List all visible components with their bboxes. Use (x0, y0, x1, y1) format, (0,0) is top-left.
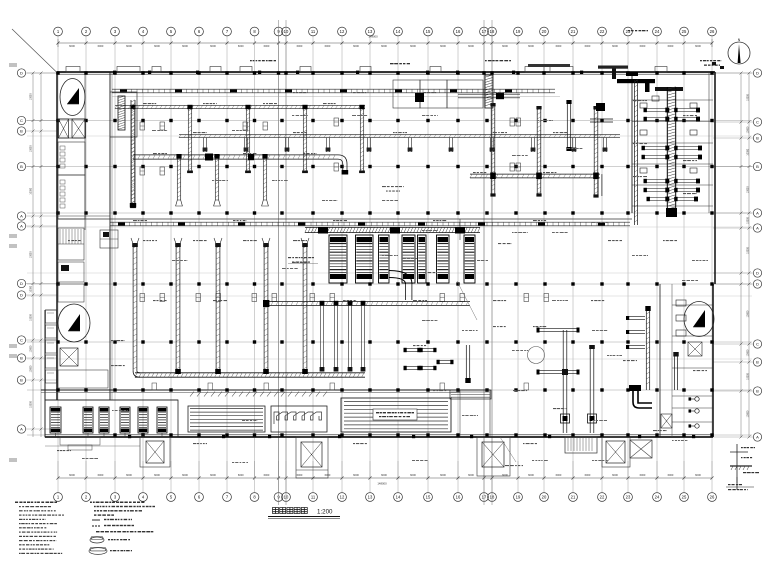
svg-text:6000: 6000 (585, 473, 591, 477)
trunk duct T4 right-center y176 (470, 173, 600, 175)
svg-text:C: C (20, 118, 23, 123)
svg-text:6000: 6000 (210, 473, 216, 477)
legend car symbols (90, 537, 104, 543)
hatch row above bands (190, 392, 194, 397)
elevator protrusion E4 (602, 437, 630, 467)
lower hall vertical riser ducts (132, 243, 134, 371)
svg-text:6000: 6000 (668, 473, 674, 477)
lower hall wall y390 (41, 389, 490, 391)
svg-text:10000: 10000 (30, 314, 33, 321)
svg-text:12: 12 (340, 29, 345, 34)
svg-text:26: 26 (710, 495, 715, 500)
bottom AHU units (50, 407, 61, 433)
top grid bubbles (54, 27, 63, 36)
svg-text:6000: 6000 (238, 473, 244, 477)
center-bottom cluster of branches (405, 348, 419, 350)
left vertical dimension lines (32, 73, 34, 437)
bottom AHU room walls (45, 400, 178, 437)
svg-text:10000: 10000 (747, 148, 750, 155)
svg-text:B: B (756, 389, 759, 394)
right lower riser (673, 355, 675, 390)
legend notes block middle (90, 502, 92, 504)
building outer wall right (714, 72, 716, 284)
AHU cluster top duct band (305, 226, 480, 228)
T4 elbow down at x600 (598, 174, 602, 196)
right lower wing walls (659, 284, 661, 437)
svg-text:10000: 10000 (747, 247, 750, 254)
right wing left riser (633, 80, 635, 225)
svg-text:B: B (20, 378, 23, 383)
svg-text:25: 25 (682, 29, 687, 34)
svg-text:6000: 6000 (410, 44, 416, 48)
elevator right wing (688, 342, 702, 356)
svg-text:C: C (20, 338, 23, 343)
svg-text:A: A (756, 226, 759, 231)
ceiling diffuser pairs center hall (510, 118, 515, 126)
svg-text:10000: 10000 (30, 401, 33, 408)
svg-text:6000: 6000 (502, 473, 508, 477)
right wing branch pairs (645, 108, 667, 110)
trunk duct T2 y136 (179, 133, 620, 135)
right wing small equipment (640, 103, 647, 108)
svg-text:10: 10 (284, 495, 289, 500)
svg-text:15: 15 (426, 29, 431, 34)
svg-text:13: 13 (368, 29, 373, 34)
svg-text:19: 19 (516, 29, 521, 34)
toilet rooms left column (58, 142, 85, 175)
upper rooms x390-490 (393, 80, 420, 108)
right oval room (684, 302, 714, 337)
diffuser pairs lower hall row 390 area (152, 383, 157, 390)
svg-text:B: B (20, 356, 23, 361)
svg-text:20: 20 (542, 29, 547, 34)
svg-text:16: 16 (456, 29, 461, 34)
svg-text:6000: 6000 (468, 44, 474, 48)
svg-text:10000: 10000 (30, 251, 33, 258)
building outer wall bottom (45, 436, 713, 438)
right vertical dimension lines (740, 73, 742, 437)
svg-text:6000: 6000 (695, 473, 701, 477)
gap vertical duct x569 (566, 103, 568, 150)
T4 verticals (490, 105, 492, 195)
right wing trunk duct (666, 87, 668, 212)
T duct 1 x565 (562, 330, 564, 433)
svg-text:10000: 10000 (30, 187, 33, 194)
hall interior labels with leaders (288, 257, 291, 258)
svg-text:6000: 6000 (69, 44, 75, 48)
section cut line pair 9/10 (278, 20, 280, 505)
top-left oval room (60, 79, 85, 116)
svg-text:6000: 6000 (556, 44, 562, 48)
svg-text:6000: 6000 (154, 44, 160, 48)
svg-text:B: B (20, 129, 23, 134)
svg-text:6000: 6000 (182, 473, 188, 477)
trunk duct T1 y106 (115, 104, 365, 106)
top small labels near north arrow (700, 60, 702, 61)
svg-text:6000: 6000 (182, 44, 188, 48)
svg-text:14: 14 (396, 29, 401, 34)
stair protrusion center-right (565, 437, 597, 453)
svg-text:6000: 6000 (264, 473, 270, 477)
corner cut diagonal line (12, 29, 58, 73)
smoke riser duct (118, 96, 125, 130)
svg-text:16: 16 (456, 495, 461, 500)
svg-text:17: 17 (482, 495, 487, 500)
svg-text:24: 24 (655, 495, 660, 500)
svg-text:10: 10 (284, 29, 289, 34)
striped band B1 (188, 406, 265, 432)
svg-text:6000: 6000 (640, 44, 646, 48)
svg-text:D: D (20, 293, 23, 298)
svg-text:6000: 6000 (154, 473, 160, 477)
trunk duct T3 y157 (133, 154, 338, 156)
elevator bottom-left (60, 348, 78, 366)
small stalls column x45-57 (46, 310, 57, 323)
T duct 2 x592 (589, 348, 591, 433)
svg-text:18: 18 (490, 495, 495, 500)
right grid bubbles (753, 69, 761, 77)
vertical axis grid lines (57, 43, 59, 478)
svg-text:10000: 10000 (30, 93, 33, 100)
svg-text:D: D (756, 71, 759, 76)
legend symbol rows (92, 519, 100, 521)
door ticks on bottom wall (128, 435, 131, 438)
section cut line pair 17/18 (483, 20, 485, 505)
svg-text:6000: 6000 (353, 473, 359, 477)
svg-text:6000: 6000 (353, 44, 359, 48)
svg-text:14: 14 (396, 495, 401, 500)
svg-text:6000: 6000 (585, 44, 591, 48)
svg-text:10000: 10000 (747, 373, 750, 380)
corridor wall y219 (57, 218, 632, 220)
svg-text:23: 23 (626, 29, 631, 34)
elevator protrusion E3 (477, 437, 510, 476)
svg-text:26: 26 (710, 29, 715, 34)
svg-text:B: B (20, 164, 23, 169)
svg-text:C: C (756, 120, 759, 125)
svg-text:6000: 6000 (69, 473, 75, 477)
svg-text:A: A (756, 211, 759, 216)
svg-text:6000: 6000 (695, 44, 701, 48)
svg-text:1:200: 1:200 (317, 509, 333, 516)
branch duct y303 (266, 301, 470, 303)
svg-text:21: 21 (571, 495, 576, 500)
svg-text:10000: 10000 (747, 126, 750, 133)
svg-text:17: 17 (482, 29, 487, 34)
bottom-left oval room (58, 304, 90, 342)
top dimension line (58, 42, 712, 44)
T3 elbow to vertical (338, 155, 347, 173)
diffuser pairs lower hall row 296 (140, 294, 145, 302)
horizontal axis grid lines (27, 72, 752, 74)
right wing top dark ducts (617, 79, 655, 83)
svg-text:6000: 6000 (468, 473, 474, 477)
svg-text:6000: 6000 (410, 473, 416, 477)
svg-text:6000: 6000 (126, 44, 132, 48)
bottom-left step bumps (60, 437, 100, 445)
svg-text:6000: 6000 (126, 473, 132, 477)
svg-text:D: D (756, 282, 759, 287)
scattered duct size labels (143, 103, 147, 104)
svg-text:B: B (756, 360, 759, 365)
svg-text:11: 11 (311, 495, 316, 500)
svg-text:A: A (756, 435, 759, 440)
corridor long duct y224 (110, 221, 630, 223)
hatched box right of E4 (630, 440, 652, 458)
svg-text:6000: 6000 (640, 473, 646, 477)
svg-text:6000: 6000 (297, 473, 303, 477)
right-bottom S duct cluster (633, 390, 652, 408)
T3 vertical drops (176, 159, 178, 201)
svg-text:10000: 10000 (747, 94, 750, 101)
svg-text:D: D (20, 281, 23, 286)
svg-text:6000: 6000 (264, 44, 270, 48)
svg-text:D: D (20, 71, 23, 76)
smoke room upper-left (110, 92, 137, 137)
svg-text:6000: 6000 (612, 473, 618, 477)
shaft boxes left x100-118 y230 (100, 230, 118, 248)
svg-text:10000: 10000 (747, 186, 750, 193)
upper connector duct y96 (458, 93, 520, 95)
svg-text:6000: 6000 (297, 44, 303, 48)
svg-text:A: A (20, 427, 23, 432)
elevators top-left (59, 119, 69, 138)
svg-text:10000: 10000 (747, 349, 750, 356)
lower hall U trunk y375 (135, 372, 365, 374)
svg-text:6000: 6000 (612, 44, 618, 48)
inner corridor wall x110 (109, 72, 111, 400)
svg-text:10000: 10000 (30, 345, 33, 352)
meander band B2 (271, 406, 327, 432)
svg-text:11: 11 (311, 29, 316, 34)
y303 drops (319, 305, 321, 371)
svg-text:6000: 6000 (381, 44, 387, 48)
svg-text:23: 23 (626, 495, 631, 500)
right-bottom branches (628, 316, 645, 318)
svg-text:148000: 148000 (377, 482, 387, 486)
svg-text:24: 24 (655, 29, 660, 34)
svg-text:15: 15 (426, 495, 431, 500)
AHU units row (329, 235, 347, 283)
AHU elbow curve (389, 271, 412, 285)
svg-text:25: 25 (682, 495, 687, 500)
bottom rooms top wall y400 (45, 399, 178, 401)
svg-text:22: 22 (600, 495, 605, 500)
right wing trunk bottom elbow (666, 208, 677, 217)
inner wall x85 upper-left (84, 72, 86, 230)
riser duct x489 upper (485, 75, 493, 108)
svg-text:B: B (756, 136, 759, 141)
svg-text:10000: 10000 (747, 410, 750, 417)
left lower room (58, 370, 108, 388)
svg-text:6000: 6000 (668, 44, 674, 48)
mid lower walls x460-632 (459, 219, 461, 240)
band B3 top dark wall strip (450, 390, 491, 399)
right margin section detail (736, 444, 738, 490)
north arrow (728, 42, 750, 64)
svg-text:6000: 6000 (210, 44, 216, 48)
big striped band B3 (341, 398, 451, 432)
svg-text:10000: 10000 (30, 365, 33, 372)
tall left riser duct x133 (130, 100, 132, 207)
right wing separation wall x632 (631, 72, 633, 213)
long supply duct below top wall (112, 88, 555, 90)
svg-text:20: 20 (542, 495, 547, 500)
building outer wall left (56, 72, 58, 400)
svg-text:6000: 6000 (556, 473, 562, 477)
svg-text:6000: 6000 (502, 44, 508, 48)
svg-text:6000: 6000 (440, 44, 446, 48)
svg-text:A: A (20, 224, 23, 229)
entrance canopies top (66, 67, 80, 73)
svg-text:10000: 10000 (747, 310, 750, 317)
svg-text:13: 13 (368, 495, 373, 500)
title: floor plan 1:200 (273, 508, 279, 514)
svg-text:6000: 6000 (381, 473, 387, 477)
svg-text:19: 19 (516, 495, 521, 500)
svg-text:6000: 6000 (528, 44, 534, 48)
svg-text:6000: 6000 (440, 473, 446, 477)
svg-text:10000: 10000 (30, 285, 33, 292)
svg-text:21: 21 (571, 29, 576, 34)
svg-text:6000: 6000 (238, 44, 244, 48)
building outer wall top (57, 71, 715, 73)
duct below AHU cluster (405, 284, 407, 300)
svg-text:22: 22 (600, 29, 605, 34)
svg-text:B: B (756, 164, 759, 169)
small rooms left y260-300 (58, 262, 84, 282)
bottom grid bubbles (54, 493, 63, 502)
small circle column bubble (528, 347, 545, 364)
svg-text:6000: 6000 (98, 473, 104, 477)
svg-text:12: 12 (340, 495, 345, 500)
door ticks on top wall (113, 71, 116, 74)
svg-text:A: A (20, 214, 23, 219)
svg-text:C: C (756, 342, 759, 347)
svg-text:6000: 6000 (528, 473, 534, 477)
left grid bubbles (17, 69, 25, 77)
stairs left y230 (58, 228, 84, 260)
T2 short drops (203, 138, 205, 153)
right wing room walls (632, 99, 713, 101)
svg-text:D: D (756, 271, 759, 276)
bottom dimension line (58, 477, 712, 479)
svg-text:148000: 148000 (368, 35, 378, 39)
right lower wing fan coils (695, 397, 699, 401)
T1 vertical branches (130, 109, 132, 208)
svg-text:10000: 10000 (747, 217, 750, 224)
svg-text:6000: 6000 (98, 44, 104, 48)
svg-text:6000: 6000 (325, 44, 331, 48)
svg-text:10000: 10000 (30, 145, 33, 152)
svg-text:18: 18 (490, 29, 495, 34)
structural columns grid (56, 71, 59, 74)
legend notes block left (15, 502, 18, 504)
left edge tick marks (9, 63, 17, 65)
apron line bottom-left (45, 445, 140, 447)
elevator protrusion E1 (140, 437, 170, 467)
elevator protrusion E2 (296, 437, 328, 478)
